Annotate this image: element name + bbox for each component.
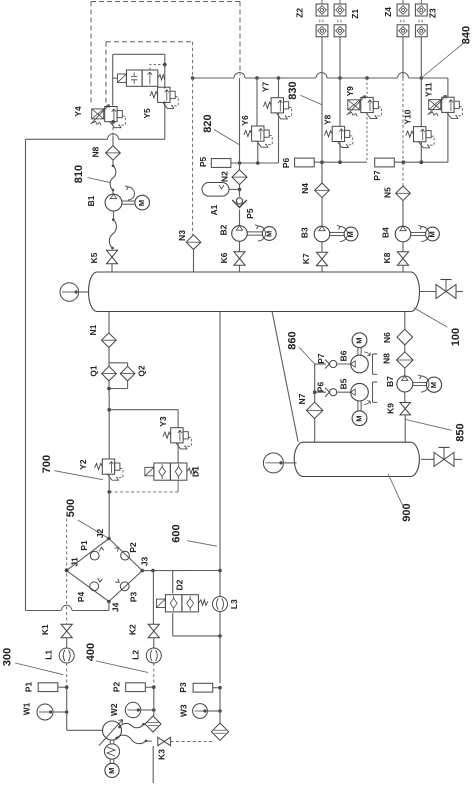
svg-text:300: 300 (1, 648, 13, 666)
filters Q1 Q2 parallel pair (89, 348, 147, 396)
wire: dashed drain K3 to right filter (171, 740, 214, 742)
label 400 with leader (85, 643, 148, 673)
svg-text:850: 850 (454, 423, 466, 441)
svg-text:K3: K3 (157, 749, 167, 760)
svg-text:N5: N5 (382, 187, 392, 198)
flow meter L2 (131, 648, 162, 687)
wire: dashed drain from bus to filter N3 (192, 42, 194, 235)
check valve P7 and pump B6 with motor (315, 333, 378, 374)
svg-text:Y11: Y11 (423, 82, 433, 97)
svg-text:Z4: Z4 (383, 7, 393, 17)
valve K9 (386, 403, 411, 443)
vessel 100 (main tank) (89, 272, 420, 312)
pump B3 with motor M (299, 225, 358, 252)
svg-text:N8: N8 (382, 353, 392, 364)
svg-text:J2: J2 (95, 529, 105, 539)
flow meter L3 (213, 597, 240, 684)
directional valve D1 (145, 463, 201, 480)
wire: B1 to valve K5 with flex hose (109, 211, 116, 249)
pressure transmitter P2 (112, 682, 156, 693)
flow meter L1 (44, 648, 74, 687)
gauge W3 (179, 704, 222, 719)
flex hose upper (pump to suction filter) (118, 723, 145, 728)
flexible coupling (circle with S) (104, 740, 119, 759)
svg-text:M: M (429, 382, 438, 388)
label 850 with leader (405, 419, 466, 441)
filter N8 (lower) (382, 345, 413, 376)
wire: B2 pressure column (238, 78, 242, 197)
valve Y10 (relief, on Z3 column) (403, 78, 434, 162)
valve K6 (219, 252, 245, 272)
svg-text:Q1: Q1 (89, 365, 99, 377)
valve Y11 (solenoid relief) (423, 78, 462, 162)
coupling Z4 (383, 0, 409, 78)
valve K8 (382, 252, 408, 272)
svg-text:B4: B4 (381, 227, 391, 238)
wire: 860 suction column with N7 (313, 364, 317, 442)
gauge W1 (22, 702, 69, 720)
directional valve D2 with bypass (156, 571, 221, 638)
valve Y5 (relief) (142, 87, 178, 118)
svg-text:W3: W3 (179, 704, 189, 717)
wire: 860 right column from vessel 100 (404, 312, 406, 330)
accumulator A1 (202, 183, 240, 216)
valve Y4 (solenoid proportional relief) (73, 105, 125, 128)
enclosure dashed boundary (inner box around Y4/Y5 manifold) (106, 42, 191, 103)
label 700 with leader (41, 455, 103, 480)
globe valve at vessel 100 right end (420, 280, 464, 299)
label 300 with leader (1, 648, 63, 675)
svg-text:N3: N3 (177, 230, 187, 241)
svg-text:K1: K1 (40, 624, 50, 635)
label 830 with leader (287, 81, 322, 104)
svg-text:J3: J3 (140, 557, 150, 567)
valve K2 (128, 571, 160, 648)
label 820 with leader (202, 114, 239, 144)
label 840 with leader (423, 26, 472, 77)
svg-text:Y10: Y10 (403, 109, 413, 124)
svg-text:K6: K6 (219, 252, 229, 263)
filter N2 (220, 170, 247, 185)
filter N8 (on B1 suction) (90, 146, 120, 161)
wire: suction down to pump feed (67, 687, 103, 730)
coupling Z2 (295, 0, 328, 78)
svg-text:Y5: Y5 (142, 108, 152, 119)
wire: left tank rail (26, 139, 109, 610)
svg-text:N4: N4 (300, 183, 310, 194)
valve K3 (horizontal) (157, 737, 171, 760)
svg-text:K7: K7 (301, 253, 311, 264)
wire: B3 pressure column (321, 78, 323, 226)
svg-text:D1: D1 (191, 466, 201, 477)
svg-text:N1: N1 (88, 324, 98, 335)
svg-text:Y3: Y3 (158, 416, 168, 427)
label 860 with leader (286, 331, 314, 364)
svg-text:M: M (354, 415, 363, 421)
filter N5 (382, 186, 410, 201)
svg-text:L3: L3 (229, 599, 239, 609)
label 600 with leader (170, 524, 217, 546)
suction filter (hatched) near pump (145, 716, 161, 732)
gauge on vessel 900 left end (263, 453, 296, 473)
svg-text:P5: P5 (245, 208, 255, 219)
wire: 600 column from vessel 100 (218, 312, 222, 597)
pressure transmitter P5 rect and 820 rail (198, 156, 279, 167)
valve Y9 (solenoid relief) (345, 78, 382, 162)
svg-text:M: M (137, 200, 146, 206)
pressure transmitter P1 (24, 682, 69, 693)
svg-text:700: 700 (41, 455, 53, 473)
svg-text:B7: B7 (385, 376, 395, 387)
filter N3 (177, 230, 201, 272)
label 810 with leader (73, 165, 111, 183)
svg-text:100: 100 (450, 328, 462, 346)
wire: suction rail (dashed) J1 to K1 (65, 513, 69, 624)
svg-text:600: 600 (170, 524, 182, 542)
pump B2 with motor M (219, 224, 277, 251)
wire: tank rail y=139.3 with hop over B1 drain (26, 134, 165, 140)
filter N7 (297, 393, 323, 418)
wire: main line to J2 (108, 492, 110, 539)
svg-text:N7: N7 (297, 393, 307, 404)
svg-text:P6: P6 (281, 158, 291, 169)
vessel 900 (294, 442, 419, 476)
wire: column to suction filter (153, 687, 155, 716)
svg-text:K9: K9 (386, 403, 396, 414)
label 900 with leader (388, 474, 413, 522)
svg-text:P2: P2 (112, 682, 122, 693)
wire: B4 pressure column (dashed inside manifold) (402, 78, 404, 226)
filter N4 (300, 183, 329, 198)
svg-text:P5: P5 (198, 156, 208, 167)
pressure transmitter P7 rect and 840 rail (372, 158, 448, 181)
valve Y6 (relief) (240, 78, 272, 163)
gauge on vessel 100 left end (60, 283, 89, 302)
wire: diagonal pipe vessel100 to vessel 900 (272, 312, 298, 442)
valve K7 (301, 252, 327, 272)
valve Y3 (relief) (109, 410, 191, 463)
svg-text:K2: K2 (128, 624, 138, 635)
svg-text:P3: P3 (178, 682, 188, 693)
valve K5 (89, 250, 117, 272)
filter N6 (382, 329, 412, 345)
svg-text:J4: J4 (111, 602, 121, 612)
svg-text:N8: N8 (90, 146, 100, 157)
svg-text:P7: P7 (372, 170, 382, 181)
svg-text:L1: L1 (44, 650, 54, 660)
svg-text:B5: B5 (339, 378, 349, 389)
coupling Z3 (415, 0, 437, 78)
enclosure dashed boundary (outer, pilot line loop) (91, 2, 240, 104)
wire: manifold bus y=78 (191, 73, 448, 80)
svg-text:Q2: Q2 (137, 365, 147, 377)
check valve P6 and pump B5 with motor (315, 378, 378, 425)
wire: vessel 100 to N1 (108, 312, 110, 334)
return filter (hatched) (211, 723, 228, 740)
wire: N8 to pump B1 with flex hose (110, 160, 116, 194)
svg-text:N2: N2 (220, 171, 230, 182)
svg-text:P1: P1 (24, 682, 34, 693)
filter N1 (88, 324, 116, 347)
svg-text:M: M (354, 337, 363, 343)
valve Y7 (relief) (261, 78, 292, 163)
svg-text:K8: K8 (382, 252, 392, 263)
wire: stub line below suction filter (152, 746, 154, 783)
svg-text:820: 820 (202, 114, 214, 132)
wire: circulation pipe loop top-left (113, 54, 165, 139)
svg-text:Y4: Y4 (73, 106, 83, 117)
pressure transmitter P3 (178, 682, 222, 693)
svg-text:B6: B6 (339, 350, 349, 361)
valve K1 (40, 624, 72, 648)
svg-text:K5: K5 (89, 252, 99, 263)
svg-text:B1: B1 (86, 195, 96, 206)
label 500 with leader (65, 499, 109, 539)
svg-text:P2: P2 (128, 542, 138, 553)
pump B4 with motor M (381, 225, 440, 252)
gauge W2 (109, 702, 155, 717)
svg-text:P4: P4 (76, 592, 86, 603)
pressure transmitter P6 rect and 830 rail (281, 158, 367, 169)
svg-text:W1: W1 (22, 702, 32, 715)
globe valve at vessel 900 right end (421, 447, 462, 466)
svg-text:M: M (107, 768, 116, 774)
pump B1 with motor M (86, 186, 149, 211)
svg-text:J1: J1 (70, 557, 80, 567)
svg-text:Y6: Y6 (240, 115, 250, 126)
svg-text:B3: B3 (299, 227, 309, 238)
svg-text:L2: L2 (131, 650, 141, 660)
svg-text:W2: W2 (109, 703, 119, 716)
pump diamond J1 J2 J3 J4 with P1-P4 (65, 529, 150, 613)
svg-text:P3: P3 (129, 592, 139, 603)
svg-text:P1: P1 (79, 540, 89, 551)
svg-text:Z1: Z1 (350, 9, 360, 19)
svg-text:B2: B2 (219, 224, 229, 235)
coupling Z1 (334, 0, 360, 78)
flex hose lower (pump to K3) (115, 735, 152, 743)
valve Y2 (relief) (78, 451, 123, 492)
motor M (bottom drive) (105, 759, 119, 777)
svg-text:Y8: Y8 (323, 114, 333, 125)
label 100 with leader (414, 308, 462, 347)
svg-text:P7: P7 (316, 353, 326, 364)
svg-text:830: 830 (287, 81, 299, 99)
svg-text:Z2: Z2 (295, 8, 305, 18)
svg-text:P6: P6 (316, 382, 326, 393)
svg-text:810: 810 (73, 165, 85, 183)
solenoid directional valve (unlabeled, top-left) (113, 63, 167, 87)
svg-text:Y7: Y7 (261, 82, 271, 93)
check valve P5 (232, 198, 255, 226)
svg-text:N6: N6 (382, 332, 392, 343)
svg-text:Y9: Y9 (345, 86, 355, 97)
svg-text:400: 400 (85, 643, 97, 661)
svg-text:Z3: Z3 (428, 8, 438, 18)
svg-text:Y2: Y2 (78, 459, 88, 470)
wire: J3 branch to 600 column (142, 569, 220, 573)
svg-text:A1: A1 (209, 204, 219, 215)
valve Y8 (relief, on Z1 column) (323, 78, 353, 162)
wire: dashed drain y=491.9 (107, 480, 178, 493)
pump B7 with motor M (385, 375, 441, 402)
wire: main return line down to Y2 (107, 395, 111, 451)
wire: 600 column to return filter (219, 688, 221, 723)
variable pump (bottom left) (99, 720, 123, 746)
wire: Y4 drain down to filter N8 (112, 122, 114, 146)
svg-text:840: 840 (460, 26, 472, 44)
svg-text:860: 860 (286, 331, 298, 349)
svg-text:D2: D2 (175, 579, 185, 590)
